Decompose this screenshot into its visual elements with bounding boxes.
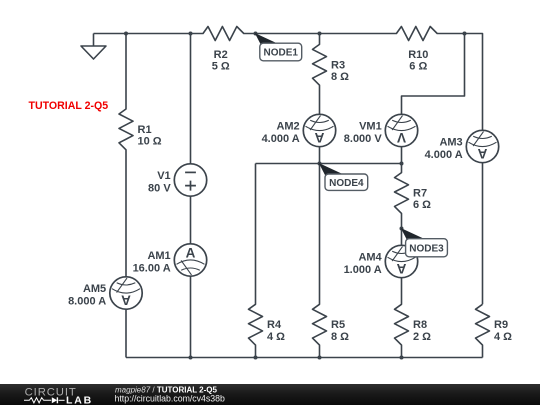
svg-text:2 Ω: 2 Ω [413, 331, 431, 343]
svg-text:TUTORIAL 2-Q5: TUTORIAL 2-Q5 [29, 100, 109, 112]
svg-text:6 Ω: 6 Ω [409, 61, 427, 73]
svg-text:4.000 A: 4.000 A [425, 149, 463, 161]
svg-text:AM2: AM2 [276, 121, 299, 133]
svg-text:R10: R10 [408, 49, 428, 61]
svg-text:8 Ω: 8 Ω [331, 71, 349, 83]
svg-text:A: A [121, 293, 131, 308]
svg-text:NODE3: NODE3 [409, 243, 444, 254]
svg-text:5 Ω: 5 Ω [212, 61, 230, 73]
svg-text:NODE4: NODE4 [329, 178, 364, 189]
svg-text:R3: R3 [331, 59, 345, 71]
svg-text:1.000 A: 1.000 A [344, 264, 382, 276]
svg-text:V1: V1 [157, 170, 170, 182]
svg-text:LAB: LAB [66, 394, 93, 405]
svg-text:A: A [315, 130, 325, 145]
svg-text:AM4: AM4 [358, 252, 382, 264]
svg-text:A: A [186, 245, 196, 260]
svg-text:A: A [397, 261, 407, 276]
svg-text:V: V [397, 130, 406, 145]
svg-text:R7: R7 [413, 188, 427, 200]
svg-text:8.000 A: 8.000 A [68, 296, 106, 308]
svg-text:R9: R9 [494, 319, 508, 331]
svg-text:AM3: AM3 [439, 137, 462, 149]
svg-text:4.000 A: 4.000 A [262, 133, 300, 145]
svg-text:http://circuitlab.com/cv4s38b: http://circuitlab.com/cv4s38b [115, 394, 226, 404]
svg-text:AM1: AM1 [147, 250, 170, 262]
svg-text:R2: R2 [214, 49, 228, 61]
svg-text:VM1: VM1 [359, 121, 382, 133]
svg-text:8 Ω: 8 Ω [331, 331, 349, 343]
svg-text:R1: R1 [138, 124, 152, 136]
svg-text:4 Ω: 4 Ω [494, 331, 512, 343]
svg-text:10 Ω: 10 Ω [138, 136, 162, 148]
svg-text:AM5: AM5 [83, 283, 106, 295]
svg-text:4 Ω: 4 Ω [267, 331, 285, 343]
svg-text:R5: R5 [331, 319, 345, 331]
svg-text:8.000 V: 8.000 V [344, 133, 383, 145]
svg-text:80 V: 80 V [148, 183, 171, 195]
svg-text:6 Ω: 6 Ω [413, 199, 431, 211]
svg-text:NODE1: NODE1 [264, 48, 299, 59]
svg-text:R8: R8 [413, 319, 427, 331]
svg-text:A: A [478, 146, 488, 161]
svg-text:16.00 A: 16.00 A [133, 263, 171, 275]
svg-text:R4: R4 [267, 319, 282, 331]
